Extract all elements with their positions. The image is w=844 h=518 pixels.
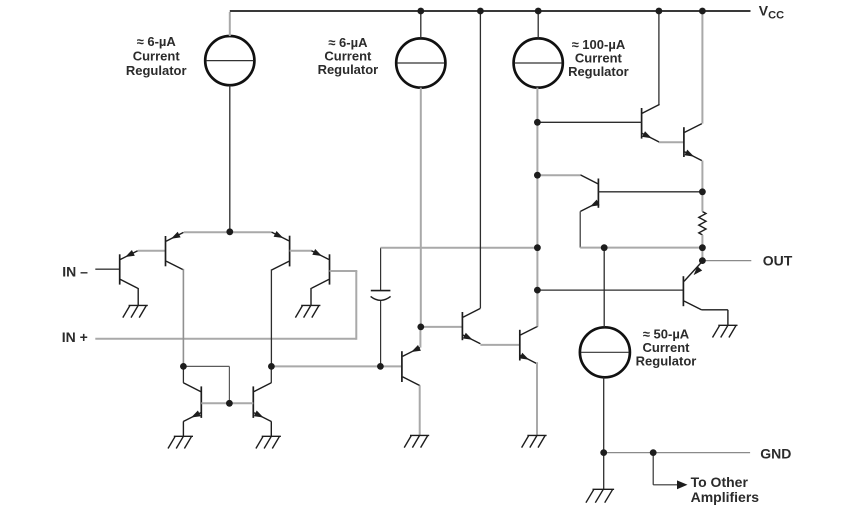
ground Q7 — [174, 435, 193, 437]
wire VCC rail — [230, 10, 751, 12]
svg-text:Current: Current — [133, 48, 181, 63]
wire IN- lead — [95, 268, 119, 270]
wire Q10 base line — [537, 289, 683, 291]
wire GND rail — [604, 452, 750, 454]
junction I4-248line — [601, 244, 608, 251]
svg-text:GND: GND — [760, 445, 791, 461]
wire Q8 emitter to gnd — [270, 421, 272, 436]
junction gnd rail — [600, 449, 607, 456]
wire emitter rail — [184, 231, 272, 233]
transistor Q6 — [401, 351, 403, 382]
wire I3 top — [537, 12, 539, 38]
junction node A — [180, 363, 187, 370]
junction caplink-I3wire — [534, 244, 541, 251]
current source I2 6uA — [396, 38, 445, 87]
svg-text:IN –: IN – — [62, 263, 88, 279]
junction OUT node — [699, 257, 706, 264]
wire Q5 base — [421, 326, 463, 328]
junction mirror bases — [226, 400, 233, 407]
transistor Q7 — [200, 386, 202, 418]
wire Q8 collector — [270, 366, 272, 383]
wire Q4 collector to gnd — [310, 288, 312, 306]
wire Q1e-Q2b link — [138, 250, 165, 252]
junction resistor top — [699, 188, 706, 195]
junction gnd branch — [650, 449, 657, 456]
wire 248-line right — [604, 247, 702, 249]
wire Q9 collector vertical — [536, 290, 538, 327]
arrow to-other-amps — [677, 480, 688, 489]
wire Q1 collector to gnd — [137, 288, 139, 306]
wire OUT lead — [702, 260, 751, 262]
transistor Q1 — [119, 254, 121, 284]
wire Q6 collector to gnd — [419, 385, 421, 435]
wire Q13 emitter down — [579, 211, 581, 247]
wire Q9 emitter to gnd — [536, 362, 538, 435]
wire I4 top — [603, 248, 605, 328]
transistor Q8 — [252, 386, 254, 418]
junction rail-I2 — [417, 8, 424, 15]
junction rail-Q12c — [699, 8, 706, 15]
wire nodeA to mirror — [183, 365, 229, 367]
junction Q13 tap — [534, 172, 541, 179]
junction Q11 base tap — [534, 119, 541, 126]
wire I3 bottom — [536, 88, 538, 327]
wire Q3 collector vertical — [270, 269, 272, 366]
wire Q11 collector vertical — [658, 12, 660, 104]
junction cap-node — [377, 363, 384, 370]
wire Q12 emitter vertical — [701, 161, 703, 192]
junction 248-OUT node — [699, 244, 706, 251]
ground I4 — [593, 488, 615, 490]
current source I3 100uA — [514, 38, 563, 87]
svg-text:≈ 6-µA: ≈ 6-µA — [137, 34, 177, 49]
transistor Q3 — [289, 236, 291, 267]
wire IN+ lead — [95, 338, 356, 340]
wire nodeB to Q6 base — [271, 365, 402, 367]
current source I4 50uA — [580, 327, 630, 377]
svg-text:To Other: To Other — [691, 474, 749, 490]
wire I1 top — [229, 12, 231, 36]
wire Q7 emitter to gnd — [182, 421, 184, 436]
ground Q9 — [527, 434, 546, 436]
junction rail-Q5c — [477, 8, 484, 15]
wire Q3b-Q4e link — [290, 250, 312, 252]
transistor Q13 — [597, 179, 599, 208]
wire I2 bottom — [420, 88, 422, 327]
svg-text:Regulator: Regulator — [636, 353, 697, 368]
junction rail-Q11c — [656, 8, 663, 15]
svg-text:OUT: OUT — [763, 253, 793, 269]
junction node B — [268, 363, 275, 370]
wire Q2 collector vertical — [182, 269, 184, 367]
wire Q4 base — [330, 270, 358, 272]
capacitor Cc — [380, 248, 382, 290]
transistor Q11 — [641, 108, 643, 139]
ground Q1 — [129, 304, 148, 306]
wire Q5e-Q9b link — [480, 344, 519, 346]
wire resistor bottom stub — [701, 235, 703, 248]
wire I4 bottom — [603, 377, 605, 489]
current source I1 6uA — [205, 36, 254, 85]
transistor Q5 — [461, 312, 463, 340]
wire IN+ vertical — [355, 271, 357, 340]
wire Q12 collector vertical — [701, 12, 703, 124]
resistor Rsc — [699, 212, 706, 235]
wire Q5 collector vertical — [479, 12, 481, 308]
junction Q10 base node — [534, 287, 541, 294]
wire mirror bases — [201, 402, 253, 404]
wire Q11 base — [537, 121, 641, 123]
transistor Q10 — [682, 276, 684, 306]
wire out node stub — [701, 248, 703, 261]
ground Q8 — [262, 435, 281, 437]
wire Q10 collector run — [701, 309, 728, 311]
transistor Q4 — [329, 254, 331, 284]
svg-text:Amplifiers: Amplifiers — [691, 489, 760, 505]
svg-text:Regulator: Regulator — [568, 64, 629, 79]
svg-text:Regulator: Regulator — [318, 62, 379, 77]
ground Q6 — [410, 434, 429, 436]
wire Q13 base line — [598, 191, 702, 193]
wire resistor top stub — [701, 192, 703, 212]
junction Q5 base node — [417, 324, 424, 331]
wire I2 top — [420, 12, 422, 38]
wire I2 to Q6 — [419, 327, 421, 348]
junction rail-I3 — [535, 8, 542, 15]
wire I1 bottom — [229, 85, 231, 232]
transistor Q9 — [519, 330, 521, 361]
wire to-other-amps branch — [652, 453, 654, 485]
wire Q11e-Q12b link — [659, 141, 684, 143]
wire cap top link — [381, 247, 538, 249]
wire Q13 upper link — [537, 174, 580, 176]
wire Q7 collector — [182, 366, 184, 383]
svg-text:IN +: IN + — [62, 329, 88, 345]
ground Q4 — [301, 304, 320, 306]
transistor Q2 — [165, 236, 167, 266]
junction emitter rail-I1 — [226, 228, 233, 235]
ground Q10 — [718, 324, 737, 326]
svg-text:Regulator: Regulator — [126, 63, 187, 78]
transistor Q12 — [683, 127, 685, 157]
